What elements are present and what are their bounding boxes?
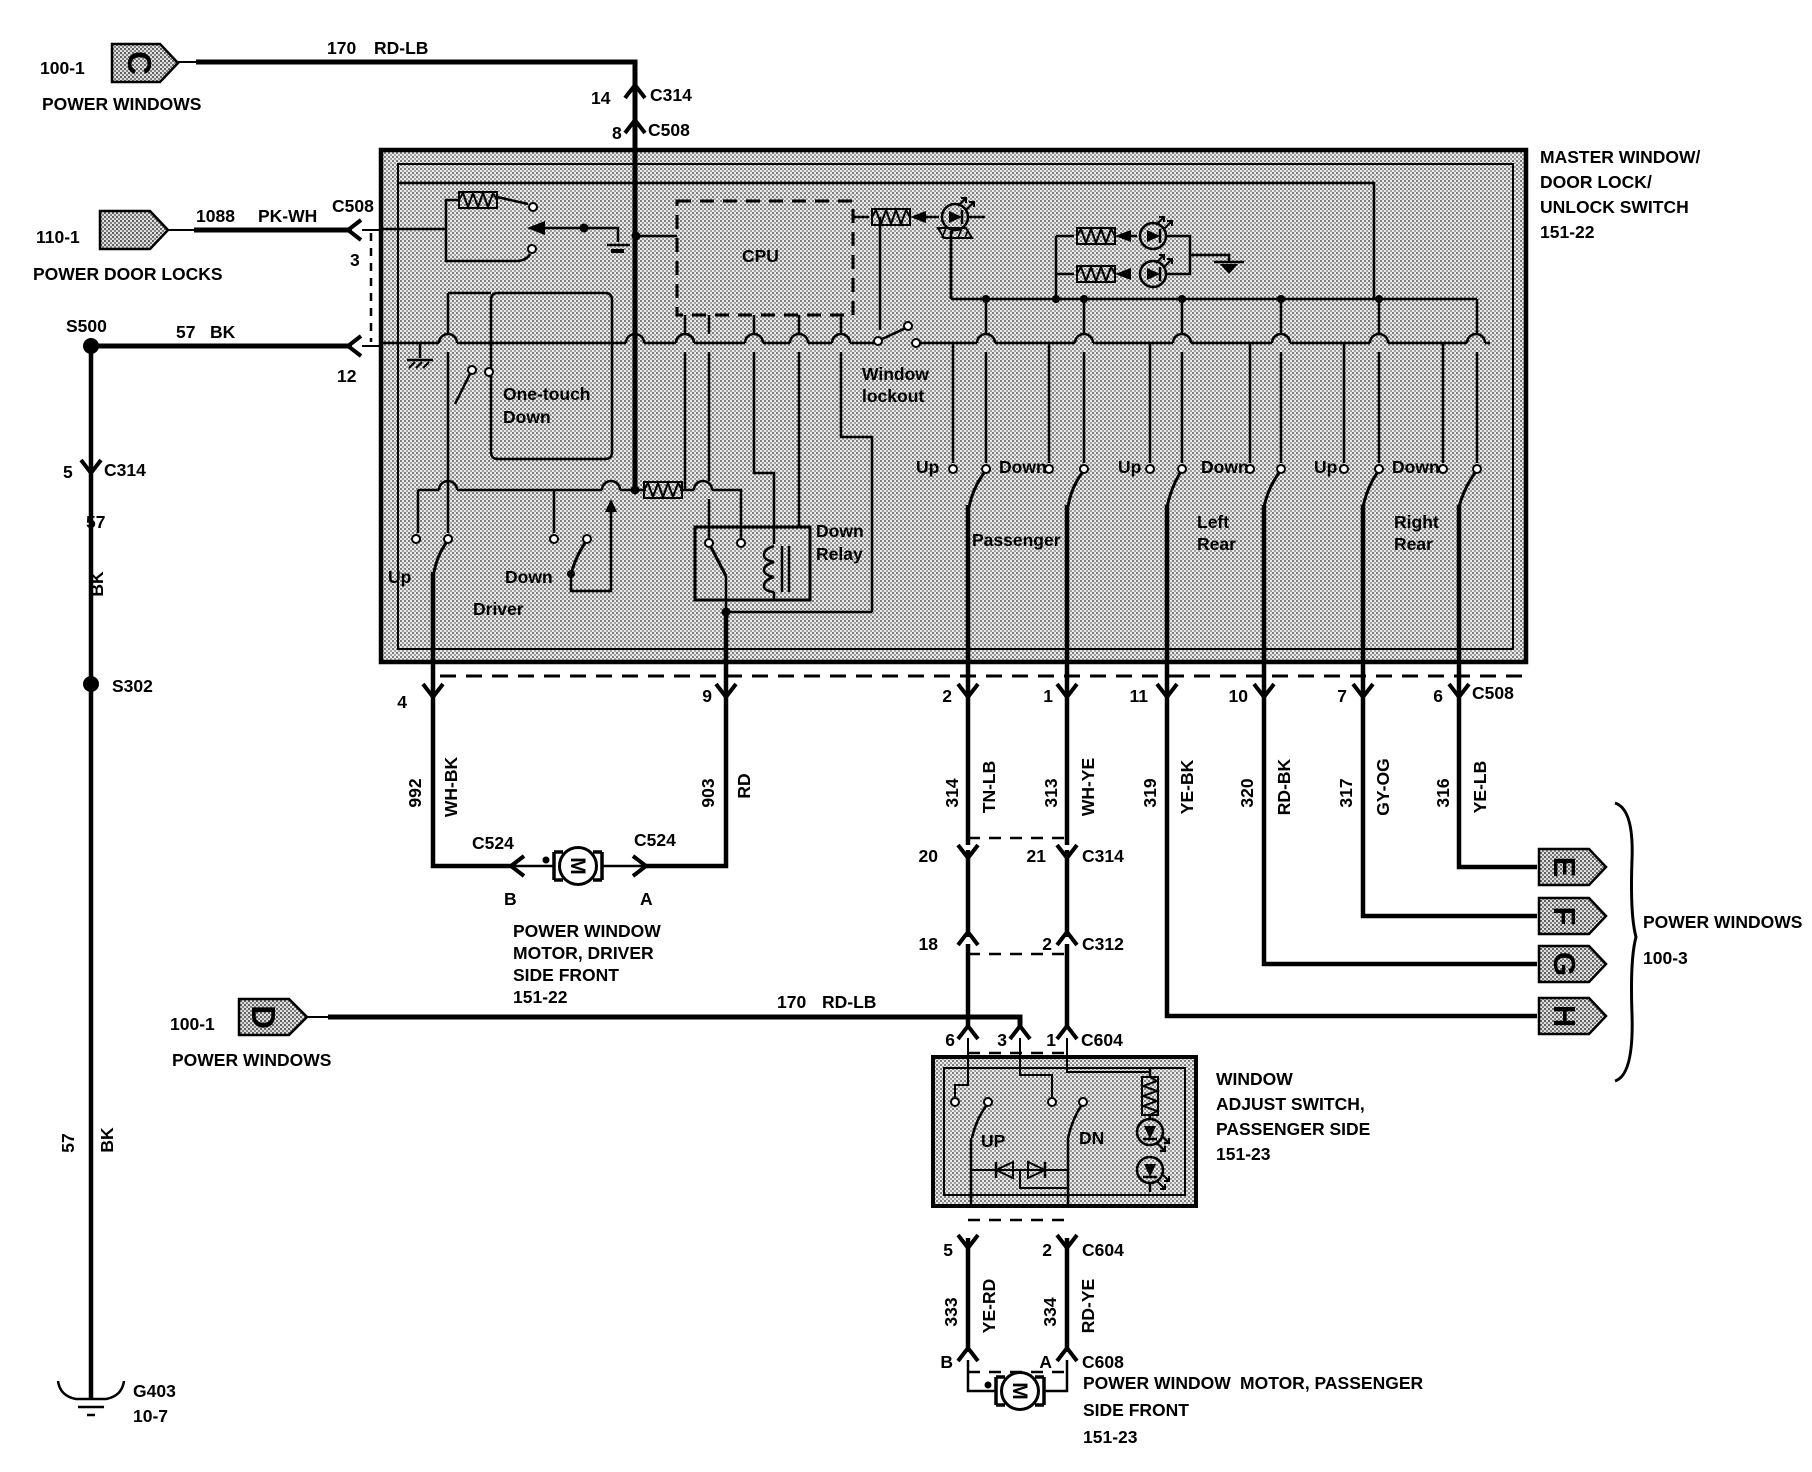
passenger motor bbox=[968, 1360, 996, 1391]
dashed line below master box bbox=[440, 675, 1526, 678]
svg-text:SIDE FRONT: SIDE FRONT bbox=[513, 965, 619, 985]
ground internal at ground bus bbox=[419, 343, 422, 358]
connector C604 top 6/3/1 bbox=[958, 1026, 978, 1039]
svg-text:2: 2 bbox=[942, 686, 952, 706]
svg-text:E: E bbox=[1547, 857, 1582, 878]
svg-text:4: 4 bbox=[397, 692, 407, 712]
svg-text:Relay: Relay bbox=[816, 544, 863, 564]
svg-text:C524: C524 bbox=[472, 833, 514, 853]
inline connector C314 20/21 bbox=[968, 837, 1067, 840]
svg-text:8: 8 bbox=[612, 123, 622, 143]
resistor R3 and LED D1 indicator row bbox=[853, 216, 869, 219]
svg-text:12: 12 bbox=[337, 366, 357, 386]
wire 170 RD-LB vertical inside box bbox=[633, 150, 638, 490]
svg-text:C314: C314 bbox=[650, 85, 692, 105]
brace bbox=[1615, 803, 1636, 1081]
svg-text:WINDOW: WINDOW bbox=[1216, 1069, 1293, 1089]
pin 6 wire YE-LB to E bbox=[1459, 505, 1537, 867]
pin 10 wire RD-BK to G bbox=[1264, 505, 1537, 964]
svg-text:Window: Window bbox=[862, 364, 929, 384]
svg-text:170: 170 bbox=[777, 992, 806, 1012]
svg-text:7: 7 bbox=[1337, 686, 1347, 706]
connector C608 B/A bbox=[958, 1348, 978, 1361]
svg-text:2: 2 bbox=[1042, 1240, 1052, 1260]
svg-text:992: 992 bbox=[405, 778, 425, 807]
svg-text:C604: C604 bbox=[1081, 1030, 1123, 1050]
svg-text:GY-OG: GY-OG bbox=[1373, 758, 1393, 815]
svg-text:21: 21 bbox=[1027, 846, 1047, 866]
svg-text:903: 903 bbox=[698, 778, 718, 807]
svg-text:2: 2 bbox=[1042, 934, 1052, 954]
svg-text:C312: C312 bbox=[1082, 934, 1124, 954]
svg-text:Up: Up bbox=[1314, 457, 1337, 477]
wire ground bus right section with hops bbox=[912, 342, 1490, 345]
wire feed drops to switch contacts bbox=[985, 299, 988, 463]
svg-text:UP: UP bbox=[981, 1131, 1006, 1151]
connector C314 pin 5 bbox=[81, 460, 101, 473]
ground capacitor symbol bbox=[607, 244, 630, 247]
svg-text:10: 10 bbox=[1229, 686, 1249, 706]
svg-text:100-1: 100-1 bbox=[170, 1014, 215, 1034]
svg-text:DOOR LOCK/: DOOR LOCK/ bbox=[1540, 172, 1652, 192]
DN switch passenger bbox=[1020, 1057, 1052, 1097]
wire 170 RD-LB from D to pin 3 C604 bbox=[328, 1017, 1020, 1026]
svg-text:10-7: 10-7 bbox=[133, 1406, 168, 1426]
switch arm arrowhead bbox=[527, 221, 545, 235]
junction on switch arm bbox=[580, 224, 589, 233]
svg-text:SIDE FRONT: SIDE FRONT bbox=[1083, 1400, 1189, 1420]
connector G bbox=[1539, 946, 1606, 982]
motor M1 power window motor driver side bbox=[554, 848, 602, 885]
svg-text:G: G bbox=[1547, 952, 1582, 976]
svg-text:lockout: lockout bbox=[862, 386, 924, 406]
stub from RD-LB to CPU bbox=[635, 235, 677, 238]
svg-text:One-touch: One-touch bbox=[503, 384, 591, 404]
switch window lockout bbox=[874, 337, 882, 345]
svg-text:POWER DOOR LOCKS: POWER DOOR LOCKS bbox=[33, 264, 223, 284]
svg-text:S302: S302 bbox=[112, 676, 153, 696]
svg-text:Left: Left bbox=[1197, 512, 1229, 532]
svg-text:Down: Down bbox=[503, 407, 551, 427]
svg-text:Down: Down bbox=[505, 567, 553, 587]
pin 2 wire TN-LB bbox=[966, 505, 971, 845]
svg-text:1: 1 bbox=[1046, 1030, 1056, 1050]
connector D (110-1 power door locks) bbox=[100, 211, 168, 249]
wire hops on ground bus left bbox=[439, 334, 850, 343]
svg-text:320: 320 bbox=[1237, 778, 1257, 807]
svg-text:C508: C508 bbox=[648, 120, 690, 140]
switch blades to output pins bbox=[969, 473, 984, 507]
svg-text:Down: Down bbox=[999, 457, 1047, 477]
wire switch arm to ground cap bbox=[544, 228, 618, 242]
diode pair CR1 CR2 bbox=[971, 1169, 1068, 1171]
switch contacts passenger/left rear/right rear bbox=[949, 465, 957, 473]
svg-text:RD-YE: RD-YE bbox=[1078, 1279, 1098, 1333]
svg-text:319: 319 bbox=[1140, 778, 1160, 807]
svg-text:RD-LB: RD-LB bbox=[822, 992, 876, 1012]
svg-text:C508: C508 bbox=[1472, 683, 1514, 703]
svg-text:333: 333 bbox=[941, 1297, 961, 1326]
svg-text:PK-WH: PK-WH bbox=[258, 206, 317, 226]
resistor R6 and LED D4 D5 illumination bbox=[1067, 1057, 1150, 1072]
svg-text:F: F bbox=[1547, 907, 1582, 926]
svg-text:57: 57 bbox=[58, 1133, 78, 1152]
svg-text:BK: BK bbox=[97, 1127, 117, 1153]
wire riser to indicator block bbox=[950, 231, 953, 299]
connector H bbox=[1539, 998, 1606, 1034]
resistor R1 door-lock sense with loop bbox=[459, 192, 497, 208]
svg-text:11: 11 bbox=[1130, 686, 1149, 706]
ground G403 bbox=[58, 1381, 124, 1415]
svg-text:1: 1 bbox=[1043, 686, 1053, 706]
svg-text:YE-RD: YE-RD bbox=[979, 1279, 999, 1333]
svg-text:Driver: Driver bbox=[473, 599, 524, 619]
wire internal supply rail top bbox=[398, 183, 1374, 299]
svg-text:Rear: Rear bbox=[1197, 534, 1236, 554]
svg-text:Down: Down bbox=[1201, 457, 1249, 477]
svg-text:MASTER WINDOW/: MASTER WINDOW/ bbox=[1540, 147, 1701, 167]
connector C508 pin 8 bbox=[625, 120, 645, 133]
svg-text:WH-BK: WH-BK bbox=[441, 757, 461, 818]
pin 9 wire bbox=[643, 612, 726, 866]
wire CPU output drops bbox=[684, 315, 687, 490]
svg-text:C314: C314 bbox=[1082, 846, 1124, 866]
svg-text:B: B bbox=[504, 889, 517, 909]
svg-text:110-1: 110-1 bbox=[36, 227, 80, 247]
inline connector C312 18/2 bbox=[958, 932, 978, 945]
window adjust switch passenger box bbox=[933, 1057, 1196, 1206]
svg-text:C524: C524 bbox=[634, 830, 676, 850]
svg-text:317: 317 bbox=[1336, 778, 1356, 807]
svg-text:C604: C604 bbox=[1082, 1240, 1124, 1260]
svg-text:A: A bbox=[1039, 1352, 1052, 1372]
svg-text:CPU: CPU bbox=[742, 246, 779, 266]
svg-text:RD-BK: RD-BK bbox=[1274, 758, 1294, 815]
svg-text:MOTOR, PASSENGER: MOTOR, PASSENGER bbox=[1240, 1373, 1423, 1393]
svg-text:RD-LB: RD-LB bbox=[374, 38, 428, 58]
connector C604 bottom 5/2 bbox=[968, 1219, 1067, 1222]
svg-text:BK: BK bbox=[87, 571, 107, 597]
svg-text:Down: Down bbox=[1392, 457, 1440, 477]
photo element hatch symbol bbox=[938, 228, 972, 238]
svg-text:RD: RD bbox=[734, 773, 754, 798]
svg-text:POWER WINDOW: POWER WINDOW bbox=[1083, 1373, 1231, 1393]
wire pin 3 PK-WH inside box bbox=[381, 228, 447, 231]
dashed connector line C508 bbox=[370, 233, 373, 342]
svg-text:18: 18 bbox=[919, 934, 939, 954]
wire driver section feed rail bbox=[417, 490, 420, 533]
pin 4 wire bbox=[433, 572, 512, 866]
wire lockout riser bbox=[879, 217, 882, 330]
svg-text:Up: Up bbox=[388, 567, 411, 587]
svg-text:DN: DN bbox=[1079, 1128, 1104, 1148]
wire pin3 into box bbox=[362, 229, 381, 231]
svg-text:B: B bbox=[940, 1352, 953, 1372]
svg-text:Passenger: Passenger bbox=[972, 530, 1061, 550]
svg-text:BK: BK bbox=[210, 322, 236, 342]
wire bus stubs to switch contacts bbox=[952, 343, 955, 463]
svg-text:316: 316 bbox=[1433, 778, 1453, 807]
svg-text:5: 5 bbox=[943, 1240, 953, 1260]
svg-text:A: A bbox=[640, 889, 653, 909]
svg-text:C314: C314 bbox=[104, 460, 146, 480]
svg-text:9: 9 bbox=[702, 686, 712, 706]
wire ground bus 57 BK inside switch, left section bbox=[381, 342, 874, 345]
svg-text:3: 3 bbox=[997, 1030, 1007, 1050]
svg-text:151-23: 151-23 bbox=[1216, 1144, 1271, 1164]
wire internal switch feed rail bbox=[951, 298, 1477, 301]
svg-text:20: 20 bbox=[919, 846, 939, 866]
svg-text:6: 6 bbox=[1433, 686, 1443, 706]
CPU U1 dashed block bbox=[677, 201, 853, 315]
wire 1088 PK-WH bbox=[168, 229, 196, 231]
svg-text:57: 57 bbox=[176, 322, 195, 342]
relay K1 down relay bbox=[695, 527, 810, 600]
svg-text:UNLOCK SWITCH: UNLOCK SWITCH bbox=[1540, 197, 1689, 217]
svg-text:YE-BK: YE-BK bbox=[1177, 759, 1197, 814]
svg-text:1088: 1088 bbox=[196, 206, 235, 226]
svg-text:100-3: 100-3 bbox=[1643, 948, 1688, 968]
wire 170 RD-LB from C to box top bbox=[178, 61, 198, 63]
connector E bbox=[1539, 849, 1606, 885]
svg-text:Up: Up bbox=[916, 457, 939, 477]
pin 7 wire GY-OG to F bbox=[1363, 505, 1537, 916]
wire 57 BK to pin 12 bbox=[91, 344, 352, 349]
svg-text:Rear: Rear bbox=[1394, 534, 1433, 554]
junction dots on feed rail bbox=[982, 295, 990, 303]
svg-text:YE-LB: YE-LB bbox=[1470, 761, 1490, 814]
svg-text:6: 6 bbox=[945, 1030, 955, 1050]
svg-text:5: 5 bbox=[63, 462, 73, 482]
connector D (100-1 power windows) bbox=[239, 999, 307, 1035]
junction RD-LB feed to rail bbox=[631, 486, 640, 495]
splice S302 bbox=[83, 676, 99, 692]
svg-text:57: 57 bbox=[86, 512, 105, 532]
svg-text:PASSENGER SIDE: PASSENGER SIDE bbox=[1216, 1119, 1370, 1139]
svg-text:Up: Up bbox=[1118, 457, 1141, 477]
svg-text:C: C bbox=[121, 51, 158, 75]
wire S500 down to ground bbox=[89, 346, 94, 1399]
resistor R4 R5 and LED D2 D3 indicator rows bbox=[1055, 236, 1058, 299]
svg-text:WH-YE: WH-YE bbox=[1078, 758, 1098, 816]
svg-text:ADJUST SWITCH,: ADJUST SWITCH, bbox=[1216, 1094, 1365, 1114]
svg-text:151-23: 151-23 bbox=[1083, 1427, 1138, 1447]
svg-text:C508: C508 bbox=[332, 196, 374, 216]
svg-text:POWER WINDOWS: POWER WINDOWS bbox=[172, 1050, 331, 1070]
wire relay armature to pin 9 node bbox=[726, 576, 872, 612]
pin 11 wire YE-BK to H bbox=[1167, 505, 1537, 1016]
svg-text:G403: G403 bbox=[133, 1381, 176, 1401]
svg-text:C608: C608 bbox=[1082, 1352, 1124, 1372]
svg-text:D: D bbox=[245, 1005, 282, 1029]
connector F bbox=[1539, 898, 1606, 934]
svg-text:H: H bbox=[1547, 1005, 1582, 1027]
svg-text:TN-LB: TN-LB bbox=[979, 761, 999, 813]
motor M2 power window motor passenger side bbox=[996, 1373, 1044, 1410]
connector C314 pin 14 bbox=[625, 85, 645, 98]
master window/door lock/unlock switch box bbox=[381, 150, 1526, 662]
svg-text:170: 170 bbox=[327, 38, 356, 58]
svg-text:POWER WINDOWS: POWER WINDOWS bbox=[42, 94, 201, 114]
connector C bbox=[112, 44, 178, 82]
svg-text:313: 313 bbox=[1041, 778, 1061, 807]
svg-text:POWER WINDOWS: POWER WINDOWS bbox=[1643, 912, 1802, 932]
svg-text:151-22: 151-22 bbox=[513, 987, 568, 1007]
svg-text:MOTOR, DRIVER: MOTOR, DRIVER bbox=[513, 943, 654, 963]
svg-text:151-22: 151-22 bbox=[1540, 222, 1595, 242]
svg-text:3: 3 bbox=[350, 250, 360, 270]
switch one-touch down with loop outline bbox=[491, 293, 612, 459]
switch driver Up bbox=[412, 535, 420, 543]
resistor R2 on driver feed rail bbox=[644, 482, 682, 498]
svg-text:100-1: 100-1 bbox=[40, 58, 85, 78]
svg-text:334: 334 bbox=[1040, 1297, 1060, 1326]
svg-text:314: 314 bbox=[942, 778, 962, 807]
svg-text:S500: S500 bbox=[66, 316, 107, 336]
UP switch passenger bbox=[955, 1057, 968, 1097]
svg-text:Right: Right bbox=[1394, 512, 1439, 532]
svg-text:Down: Down bbox=[816, 521, 864, 541]
pin 1 wire WH-YE bbox=[1065, 505, 1070, 845]
svg-text:14: 14 bbox=[591, 88, 611, 108]
switch driver Down bbox=[553, 490, 556, 533]
svg-text:POWER WINDOW: POWER WINDOW bbox=[513, 921, 661, 941]
